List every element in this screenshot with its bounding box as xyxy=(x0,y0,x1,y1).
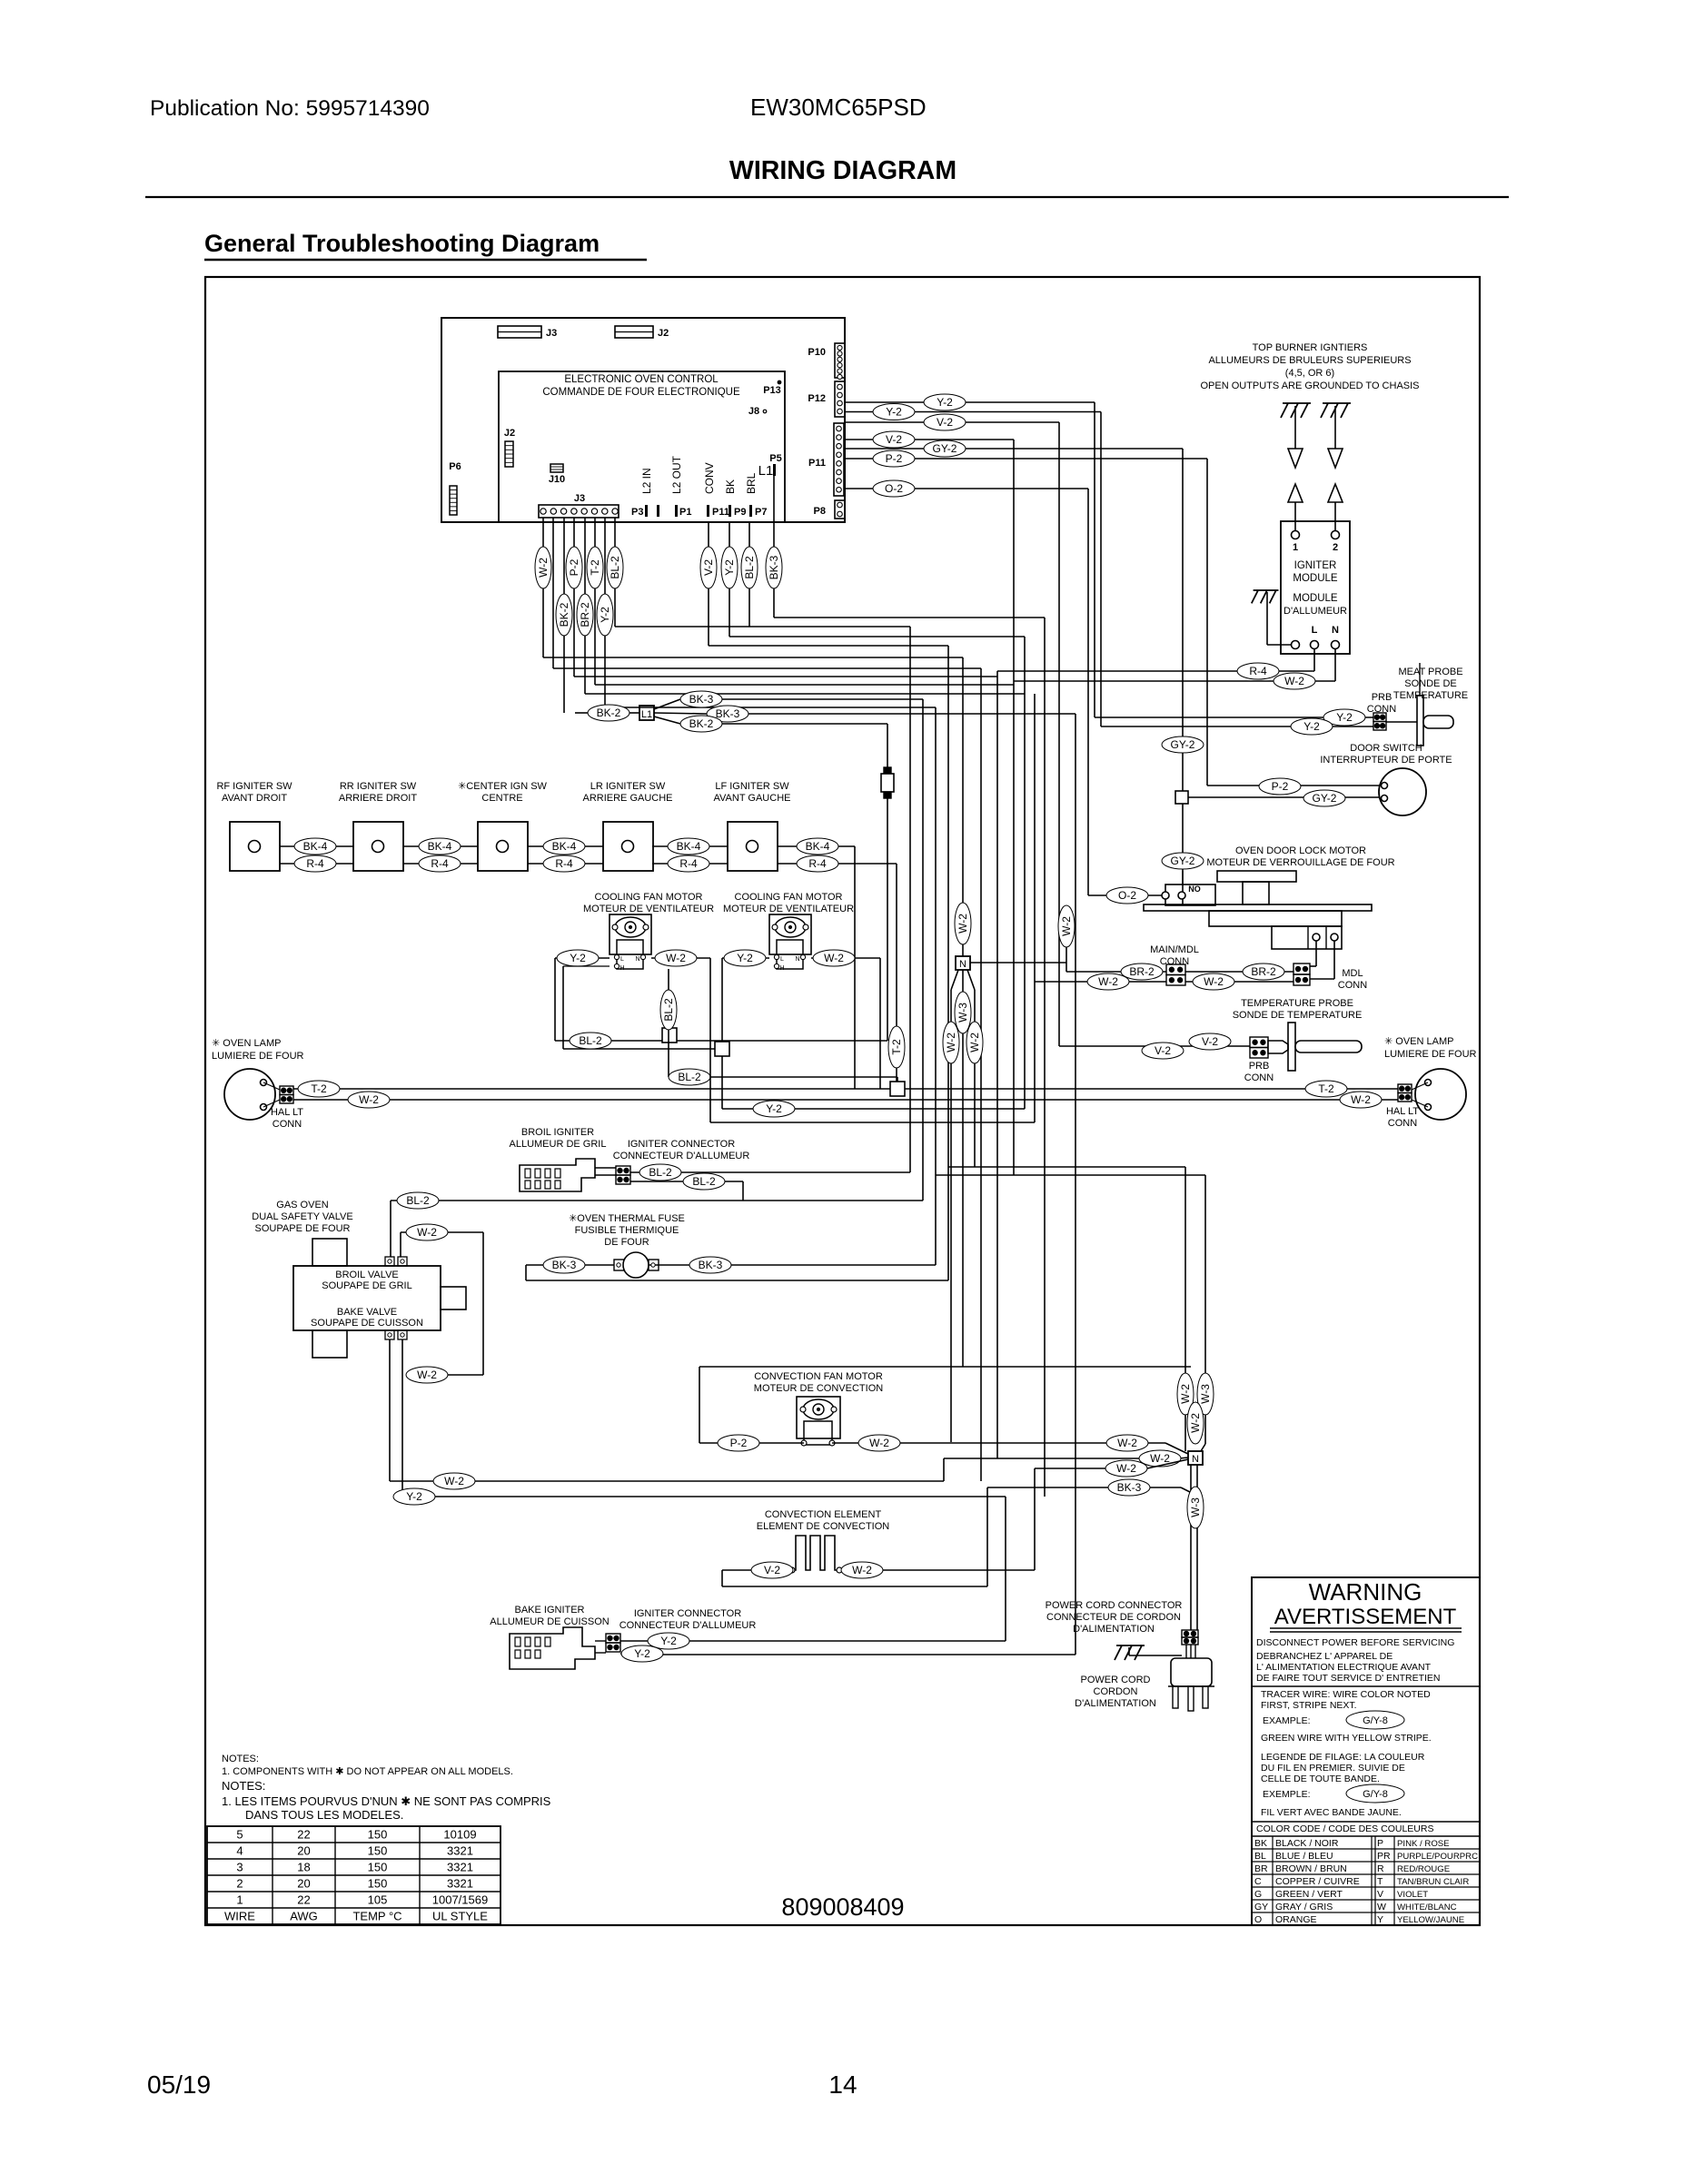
label GY-2 door xyxy=(1303,790,1345,806)
svg-text:DE FAIRE TOUT SERVICE D' E: DE FAIRE TOUT SERVICE D' ENTRETIEN xyxy=(1256,1673,1441,1684)
igniter switch box 2 xyxy=(353,822,403,871)
svg-text:DUAL SAFETY VALVE: DUAL SAFETY VALVE xyxy=(252,1211,352,1222)
valve terminals top xyxy=(385,1257,407,1266)
svg-text:R-4: R-4 xyxy=(431,857,449,870)
svg-text:BL-2: BL-2 xyxy=(579,1034,602,1047)
svg-text:D'ALLUMEUR: D'ALLUMEUR xyxy=(1284,606,1347,617)
svg-text:MOTEUR DE VERROUILLAGE DE FOUR: MOTEUR DE VERROUILLAGE DE FOUR xyxy=(1206,857,1394,868)
svg-text:SOUPAPE DE CUISSON: SOUPAPE DE CUISSON xyxy=(311,1318,423,1329)
label BL-2 vertical b xyxy=(741,547,758,588)
wire lamp T-2 line xyxy=(293,1088,1398,1090)
svg-text:P-2: P-2 xyxy=(886,452,903,465)
svg-text:General Troubleshooting Diagra: General Troubleshooting Diagram xyxy=(204,230,600,257)
svg-text:809008409: 809008409 xyxy=(781,1893,904,1921)
wire BK-3 into N2 xyxy=(987,1487,1195,1495)
wire thermal fuse BK-3 line xyxy=(526,1264,936,1266)
pin label P9 xyxy=(729,505,746,518)
svg-text:L' ALIMENTATION ELECTRIQUE A: L' ALIMENTATION ELECTRIQUE AVANT xyxy=(1256,1662,1432,1673)
label V-2 element xyxy=(751,1562,793,1578)
svg-text:✳CENTER IGN SW: ✳CENTER IGN SW xyxy=(458,781,547,792)
svg-text:V: V xyxy=(1377,1889,1383,1900)
svg-text:CONV: CONV xyxy=(703,462,716,494)
svg-text:BL-2: BL-2 xyxy=(406,1194,430,1207)
wire bus vertical x1044 xyxy=(947,646,949,1280)
label W-2 fan1 xyxy=(651,950,710,966)
svg-text:BLACK / NOIR: BLACK / NOIR xyxy=(1275,1838,1339,1849)
wire bus T-2 horizontal xyxy=(595,684,1014,686)
svg-text:OPEN OUTPUTS ARE GROUNDED TO C: OPEN OUTPUTS ARE GROUNDED TO CHASIS xyxy=(1200,380,1419,391)
wire bus P-2 horizontal xyxy=(574,676,997,677)
svg-text:L2 IN: L2 IN xyxy=(640,468,653,494)
notes text xyxy=(222,1754,551,1822)
svg-text:WIRING DIAGRAM: WIRING DIAGRAM xyxy=(729,156,956,185)
wire BK pin Y-2 xyxy=(729,522,730,637)
thermal fuse symbol xyxy=(614,1252,659,1278)
label W-2 vertical N2 b xyxy=(1187,1402,1204,1444)
svg-text:W-2: W-2 xyxy=(1098,975,1118,988)
svg-text:POWER CORD CONNECTOR: POWER CORD CONNECTOR xyxy=(1046,1600,1183,1611)
wire L1 out BK-2 c xyxy=(654,716,887,1041)
svg-text:OVEN DOOR LOCK MOTOR: OVEN DOOR LOCK MOTOR xyxy=(1235,845,1366,856)
igniter switch box 5 xyxy=(728,822,778,871)
svg-text:W-2: W-2 xyxy=(1116,1462,1136,1475)
warning text english xyxy=(1252,1637,1480,1686)
svg-text:Y-2: Y-2 xyxy=(1336,711,1353,724)
label BL-2 fan1 xyxy=(570,1033,611,1049)
node N2 xyxy=(1188,1451,1203,1465)
broil igniter connector xyxy=(616,1166,630,1184)
wire P12 Y-2 b xyxy=(845,412,1101,727)
svg-text:T: T xyxy=(1377,1876,1383,1887)
svg-text:BK-2: BK-2 xyxy=(597,707,621,719)
svg-text:GY: GY xyxy=(1254,1902,1268,1912)
wire bus vertical x1150 xyxy=(1044,618,1046,1497)
label Y-2 oval a xyxy=(924,394,966,410)
svg-text:PINK / ROSE: PINK / ROSE xyxy=(1397,1839,1450,1849)
svg-text:5: 5 xyxy=(236,1828,243,1842)
svg-text:GY-2: GY-2 xyxy=(1171,855,1195,867)
temp probe connector PRB xyxy=(1250,1037,1268,1058)
wire igniter BK-4 xyxy=(528,845,603,847)
svg-text:R-4: R-4 xyxy=(306,857,324,870)
svg-text:V-2: V-2 xyxy=(937,416,953,429)
svg-text:P-2: P-2 xyxy=(1272,780,1289,793)
label R-4 oval xyxy=(797,855,838,872)
svg-text:Y-2: Y-2 xyxy=(766,1102,782,1115)
svg-text:W-2: W-2 xyxy=(1117,1437,1137,1449)
wire bus vertical x1116 xyxy=(1013,440,1015,1175)
pin label BK xyxy=(724,479,737,494)
svg-text:P5: P5 xyxy=(769,453,781,464)
svg-text:BRL: BRL xyxy=(745,472,758,494)
svg-text:P1: P1 xyxy=(679,507,691,518)
cooling fan motor 2 text xyxy=(723,892,854,914)
wire N2 down to power cord xyxy=(1191,1465,1197,1630)
label BK-2 oval c xyxy=(680,716,722,732)
wire x1174 with W-2 oval xyxy=(1066,907,1067,972)
wire broil BL-2 b xyxy=(630,1181,743,1201)
svg-text:MODULE: MODULE xyxy=(1293,573,1338,584)
svg-text:H: H xyxy=(779,965,784,972)
pin label P1 xyxy=(675,505,691,518)
svg-text:V-2: V-2 xyxy=(1202,1035,1218,1048)
label R-4 oval xyxy=(543,855,585,872)
svg-text:BK-3: BK-3 xyxy=(689,693,714,706)
svg-text:P-2: P-2 xyxy=(730,1437,748,1449)
ground chassis symbol 1 xyxy=(1281,403,1311,418)
svg-text:1. COMPONENTS WITH ✱ DO NOT: 1. COMPONENTS WITH ✱ DO NOT APPEAR ON AL… xyxy=(222,1766,513,1777)
broil igniter element xyxy=(520,1159,616,1191)
igniter connector bake text xyxy=(619,1608,757,1631)
svg-text:CONNECTEUR D'ALLUMEUR: CONNECTEUR D'ALLUMEUR xyxy=(613,1151,750,1161)
wire N1 fan down a xyxy=(951,970,958,1442)
svg-text:Y-2: Y-2 xyxy=(723,559,736,576)
svg-text:AVANT GAUCHE: AVANT GAUCHE xyxy=(714,793,791,804)
svg-text:BROWN / BRUN: BROWN / BRUN xyxy=(1275,1863,1347,1874)
svg-text:CONVECTION ELEMENT: CONVECTION ELEMENT xyxy=(765,1509,882,1520)
svg-text:P13: P13 xyxy=(763,385,781,396)
label W-2 oval module xyxy=(1274,673,1315,689)
label W-3 below N2 xyxy=(1187,1487,1204,1528)
convection element text xyxy=(757,1509,890,1532)
svg-text:Y-2: Y-2 xyxy=(886,406,902,419)
wire fan2 W-2 down xyxy=(879,958,881,1089)
wire module L R-4 xyxy=(997,649,1314,671)
wire fan1 N down BL-2 xyxy=(668,969,669,1077)
label P-2 oval xyxy=(873,450,915,467)
connector P10 xyxy=(808,343,845,380)
ground chassis symbol 2 xyxy=(1321,403,1351,418)
igniter switch box 3 xyxy=(478,822,528,871)
wire temp probe V-2 xyxy=(1059,1045,1250,1047)
svg-text:MOTEUR DE VENTILATEUR: MOTEUR DE VENTILATEUR xyxy=(583,904,714,914)
svg-text:DANS TOUS LES MODELES.: DANS TOUS LES MODELES. xyxy=(245,1808,403,1822)
connector P8 xyxy=(814,500,845,519)
connector J2 top xyxy=(615,326,669,339)
svg-text:ARRIERE GAUCHE: ARRIERE GAUCHE xyxy=(582,793,672,804)
label PRB CONN meat xyxy=(1367,692,1396,715)
svg-text:W-2: W-2 xyxy=(417,1226,437,1239)
label Y-2 oval b xyxy=(873,404,915,420)
label T-2 vertical right xyxy=(888,1026,905,1068)
svg-text:AVANT DROIT: AVANT DROIT xyxy=(222,793,287,804)
svg-text:DEBRANCHEZ L' APPAREL DE: DEBRANCHEZ L' APPAREL DE xyxy=(1256,1651,1393,1662)
igniter switch label RR IGNITER SW xyxy=(339,781,417,804)
label O-2 oval xyxy=(873,480,915,497)
wire meat probe Y-2 b xyxy=(1101,726,1373,727)
svg-text:O-2: O-2 xyxy=(885,482,903,495)
title WIRING DIAGRAM xyxy=(729,156,956,185)
svg-text:GY-2: GY-2 xyxy=(1171,738,1195,751)
svg-text:TEMPERATURE: TEMPERATURE xyxy=(1393,690,1468,701)
wire main conn W-2 left xyxy=(1035,981,1166,983)
svg-text:BK-4: BK-4 xyxy=(677,840,701,853)
ground chassis power cord xyxy=(1115,1645,1182,1660)
svg-text:HAL LT: HAL LT xyxy=(271,1107,303,1118)
label BK-4 oval xyxy=(294,838,336,855)
cooling fan motor 1 text xyxy=(583,892,714,914)
label BK-3 oval a xyxy=(680,691,722,707)
warning box xyxy=(1252,1577,1480,1925)
wire igniter R-4 xyxy=(652,863,728,865)
svg-text:Publication No: 5995714390: Publication No: 5995714390 xyxy=(150,96,430,121)
label W-2 into N2 xyxy=(1105,1460,1147,1477)
igniter switch label RF IGNITER SW xyxy=(216,781,292,804)
label BL-2 lower xyxy=(669,1069,710,1085)
convection element symbol xyxy=(789,1536,842,1573)
wire J3 pin1 W-2 xyxy=(542,518,544,657)
header model number xyxy=(750,94,927,121)
svg-text:EXAMPLE:: EXAMPLE: xyxy=(1263,1715,1311,1726)
svg-text:FIL VERT AVEC BANDE JA: FIL VERT AVEC BANDE JAUNE. xyxy=(1261,1807,1402,1818)
svg-text:BL-2: BL-2 xyxy=(609,556,621,579)
svg-text:1. LES ITEMS POURVUS D'NUN ✱: 1. LES ITEMS POURVUS D'NUN ✱ NE SONT PAS… xyxy=(222,1794,551,1808)
svg-text:W-2: W-2 xyxy=(1351,1093,1371,1106)
svg-text:P6: P6 xyxy=(449,461,461,472)
wire J3 pin2 xyxy=(552,518,554,668)
svg-text:W-2: W-2 xyxy=(1150,1452,1170,1465)
junction L1 box xyxy=(629,706,654,720)
power cord connector text xyxy=(1046,1600,1183,1635)
label W-2 fan2 xyxy=(811,950,880,966)
arrow up to module pin1 xyxy=(1288,484,1303,530)
top burner igniters note text xyxy=(1200,342,1419,391)
svg-text:BL-2: BL-2 xyxy=(662,998,675,1022)
power cord text xyxy=(1075,1675,1156,1709)
svg-text:2: 2 xyxy=(236,1877,243,1891)
convection fan motor text xyxy=(754,1371,883,1394)
wire P12 Y-2 a xyxy=(845,402,1095,717)
node N1 xyxy=(956,956,970,970)
wire valve Y-2 bottom xyxy=(402,1339,1006,1641)
label BK-4 oval xyxy=(419,838,461,855)
wire element V-2 xyxy=(722,1487,987,1586)
wire bus vertical x1002 xyxy=(909,627,911,1172)
svg-text:L1: L1 xyxy=(641,709,652,720)
diagram border xyxy=(205,277,1480,1925)
oven thermal fuse text xyxy=(569,1213,685,1248)
svg-text:C: C xyxy=(1254,1876,1262,1887)
svg-text:ORANGE: ORANGE xyxy=(1275,1914,1317,1925)
svg-text:20: 20 xyxy=(297,1844,310,1858)
svg-text:T-2: T-2 xyxy=(311,1082,327,1095)
wire valve BL-2 line xyxy=(391,1201,923,1257)
svg-text:Y: Y xyxy=(1377,1914,1383,1925)
svg-text:G/Y-8: G/Y-8 xyxy=(1363,1789,1388,1800)
connector P13 test point xyxy=(763,380,781,396)
svg-text:BR: BR xyxy=(1254,1863,1268,1874)
svg-text:BK: BK xyxy=(724,479,737,494)
wire igniter BK-4 xyxy=(778,845,855,847)
main/mdl connector xyxy=(1166,964,1185,985)
power cord plug xyxy=(1168,1645,1214,1711)
oven lamp right text xyxy=(1384,1036,1477,1060)
wire lock motor to MDL conn a xyxy=(1310,941,1316,966)
wire P11 V-2 b xyxy=(845,439,1014,440)
label GY-2 on vertical a xyxy=(1162,736,1204,753)
wire fan1 W-2 down xyxy=(710,958,1035,1122)
EOC label text xyxy=(542,374,740,398)
label BK-4 oval xyxy=(543,838,585,855)
svg-text:W-3: W-3 xyxy=(1199,1384,1212,1404)
svg-text:TEMP °C: TEMP °C xyxy=(352,1910,401,1923)
svg-text:N: N xyxy=(959,959,966,970)
svg-text:DISCONNECT POWER BEFORE SERVIC: DISCONNECT POWER BEFORE SERVICING xyxy=(1256,1637,1454,1648)
label BL-2 broil a xyxy=(639,1164,681,1181)
gas valve body xyxy=(293,1239,466,1358)
svg-text:CORDON: CORDON xyxy=(1094,1686,1138,1697)
svg-text:BK-3: BK-3 xyxy=(699,1259,723,1271)
svg-text:✳ OVEN LAMP: ✳ OVEN LAMP xyxy=(212,1038,281,1049)
label Y-2 bake a xyxy=(648,1633,689,1649)
bake igniter element xyxy=(510,1627,606,1669)
label V-2 temp a xyxy=(1189,1033,1231,1050)
svg-text:PRB: PRB xyxy=(1249,1061,1270,1072)
wire valve W-2 top xyxy=(401,1232,483,1375)
label W-2 vertical x1174 xyxy=(1058,905,1075,947)
label W-3 below N1 xyxy=(955,992,971,1033)
svg-text:4: 4 xyxy=(236,1844,243,1858)
wire BL-2 lower line xyxy=(669,1077,897,1082)
wire L1 pin BK-3 xyxy=(773,476,775,618)
lock motor bar xyxy=(1144,904,1372,911)
warning tracer wire text xyxy=(1261,1689,1431,1726)
svg-text:BK-4: BK-4 xyxy=(552,840,577,853)
svg-text:P12: P12 xyxy=(808,393,826,404)
svg-text:BR-2: BR-2 xyxy=(1251,965,1276,978)
igniter switch label ✳CENTER IGN SW xyxy=(458,781,547,804)
wire igniter BK-4 xyxy=(280,845,353,847)
oven lamp right xyxy=(1412,1069,1466,1120)
wire bake Y-2 a xyxy=(620,1640,1006,1642)
svg-text:W-2: W-2 xyxy=(1204,975,1224,988)
label W-2 valve top xyxy=(406,1224,448,1240)
label PRB CONN temp xyxy=(1244,1061,1274,1083)
label W-2 mid lower xyxy=(1106,1435,1148,1451)
igniter module box xyxy=(1281,521,1350,654)
svg-text:ALLUMEUR DE CUISSON: ALLUMEUR DE CUISSON xyxy=(490,1616,609,1627)
label Y-2 fan2 xyxy=(722,950,769,966)
color code table xyxy=(1252,1836,1480,1925)
svg-text:3321: 3321 xyxy=(447,1861,473,1874)
svg-text:VIOLET: VIOLET xyxy=(1397,1890,1428,1900)
cooling fan motor 1 xyxy=(610,914,651,972)
wire bus W-2 horizontal xyxy=(543,657,963,658)
svg-text:BAKE IGNITER: BAKE IGNITER xyxy=(514,1605,584,1616)
svg-text:MOTEUR DE VENTILATEUR: MOTEUR DE VENTILATEUR xyxy=(723,904,854,914)
svg-text:PR: PR xyxy=(1377,1851,1391,1862)
svg-text:ALLUMEUR DE GRIL: ALLUMEUR DE GRIL xyxy=(510,1139,607,1150)
svg-text:22: 22 xyxy=(297,1828,310,1842)
wire CONV pin V-2 xyxy=(708,522,709,646)
svg-text:BK-3: BK-3 xyxy=(716,707,740,720)
svg-text:NOTES:: NOTES: xyxy=(222,1779,265,1793)
svg-text:J10: J10 xyxy=(549,474,565,485)
pin label P3 xyxy=(631,505,659,518)
wire element W-2 xyxy=(842,1468,1035,1570)
label BR-2 vertical xyxy=(577,594,593,636)
label P-2 vertical xyxy=(566,547,582,588)
temperature probe text xyxy=(1233,998,1363,1021)
svg-text:ALLUMEURS DE BRULEURS SUPERIEU: ALLUMEURS DE BRULEURS SUPERIEURS xyxy=(1208,355,1411,366)
label Y-2 vertical xyxy=(597,594,613,636)
label BL-2 valve xyxy=(397,1192,439,1209)
svg-text:W-2: W-2 xyxy=(945,1033,957,1052)
svg-text:NOTES:: NOTES: xyxy=(222,1754,259,1764)
wire J3 pin3 BK-2 xyxy=(563,518,565,713)
label R-4 oval xyxy=(294,855,336,872)
wire convection loop xyxy=(699,1367,1191,1443)
label BK-4 oval xyxy=(797,838,838,855)
label W-2 below N1 c xyxy=(966,1022,983,1063)
label W-3 vertical N2 xyxy=(1197,1373,1214,1415)
svg-text:HAL LT: HAL LT xyxy=(1386,1106,1419,1117)
svg-text:CENTRE: CENTRE xyxy=(481,793,522,804)
svg-text:PRB: PRB xyxy=(1372,692,1393,703)
connector J10 xyxy=(549,464,565,485)
svg-text:COPPER / CUIVRE: COPPER / CUIVRE xyxy=(1275,1876,1360,1887)
svg-text:W: W xyxy=(1377,1902,1386,1912)
svg-text:W-2: W-2 xyxy=(1189,1413,1202,1433)
svg-text:POWER CORD: POWER CORD xyxy=(1081,1675,1151,1685)
svg-text:Y-2: Y-2 xyxy=(599,607,611,623)
svg-text:N: N xyxy=(635,956,639,963)
svg-text:W-2: W-2 xyxy=(968,1033,981,1052)
svg-text:Y-2: Y-2 xyxy=(1303,720,1320,733)
igniter switch label LF IGNITER SW xyxy=(714,781,791,804)
wire J3 pin7 Y-2 xyxy=(604,518,606,707)
svg-text:105: 105 xyxy=(368,1893,388,1907)
wire bus vertical x1128 xyxy=(1024,637,1026,1109)
svg-text:DU FIL EN PREMIER. SUIVIE: DU FIL EN PREMIER. SUIVIE DE xyxy=(1261,1763,1405,1774)
svg-text:FIRST, STRIPE NEXT.: FIRST, STRIPE NEXT. xyxy=(1261,1700,1357,1711)
wire igniter row BK-4 vertical xyxy=(854,846,856,1089)
wire W-2 into N2 from bus xyxy=(1035,1459,1188,1468)
svg-text:EXEMPLE:: EXEMPLE: xyxy=(1263,1789,1311,1800)
label Y-2 meat b xyxy=(1291,718,1333,735)
connector P6 xyxy=(449,461,461,515)
color code header xyxy=(1252,1823,1480,1836)
svg-text:COLOR CODE / CODE DES CO: COLOR CODE / CODE DES COULEURS xyxy=(1256,1823,1433,1834)
ground chassis symbol module xyxy=(1252,590,1291,645)
svg-text:BK-2: BK-2 xyxy=(558,602,570,627)
svg-text:✳ OVEN LAMP: ✳ OVEN LAMP xyxy=(1384,1036,1453,1047)
svg-text:(4,5, OR 6): (4,5, OR 6) xyxy=(1285,368,1334,379)
svg-text:CONN: CONN xyxy=(1338,980,1367,991)
svg-text:G: G xyxy=(1254,1889,1262,1900)
wire bake Y-2 b xyxy=(620,1654,1075,1655)
svg-text:P: P xyxy=(1377,1838,1383,1849)
bake igniter connector xyxy=(606,1634,620,1652)
svg-text:LF IGNITER SW: LF IGNITER SW xyxy=(715,781,789,792)
svg-text:BK-3: BK-3 xyxy=(1117,1481,1142,1494)
electronic oven control U1 outer board xyxy=(441,318,845,522)
svg-text:O: O xyxy=(1254,1914,1262,1925)
svg-text:R-4: R-4 xyxy=(555,857,573,870)
lock motor switch box NO xyxy=(1162,871,1215,905)
svg-text:T-2: T-2 xyxy=(589,559,601,576)
svg-text:CONVECTION FAN MOTOR: CONVECTION FAN MOTOR xyxy=(754,1371,883,1382)
wire bus vertical x1030 xyxy=(935,707,937,1265)
wire BRL pin BL-2 xyxy=(748,522,750,627)
svg-text:W-2: W-2 xyxy=(852,1564,872,1576)
wire convection W-2 xyxy=(832,1443,1190,1455)
wire bus vertical x1139 xyxy=(1034,694,1036,1122)
label W-2 convection xyxy=(858,1435,900,1451)
label V-2 vertical xyxy=(700,547,717,588)
svg-text:G/Y-8: G/Y-8 xyxy=(1363,1715,1388,1726)
svg-text:N: N xyxy=(795,956,799,963)
